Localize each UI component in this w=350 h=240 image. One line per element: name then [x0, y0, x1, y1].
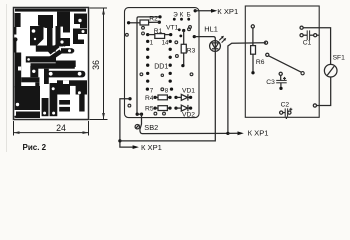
svg-text:R4: R4: [145, 95, 154, 102]
copper small rects: [59, 100, 70, 105]
svg-text:R6: R6: [256, 59, 265, 66]
svg-text:SF1: SF1: [333, 54, 346, 61]
PCB board frame: [14, 8, 89, 120]
extension line right: [88, 121, 90, 136]
diode VD2: [174, 106, 177, 109]
copper trace left thin: [14, 27, 16, 35]
board outline: [125, 8, 200, 118]
resistor R6: [251, 25, 254, 28]
svg-text:R5: R5: [145, 106, 154, 113]
copper tall bar right: [79, 95, 84, 112]
pad top-right: [194, 9, 197, 12]
svg-text:DD1: DD1: [154, 62, 168, 70]
svg-text:1: 1: [150, 39, 154, 46]
copper bar J: [21, 77, 39, 82]
svg-text:SB2: SB2: [144, 123, 158, 132]
copper bar H: [36, 46, 56, 52]
label 36: [91, 60, 101, 70]
svg-text:R3: R3: [187, 48, 196, 55]
svg-text:К ХР1: К ХР1: [141, 143, 162, 152]
ground wire net (bottom-left XP1): [128, 97, 131, 100]
wire R2 net: [129, 17, 160, 114]
LED HL1 wire anode: [193, 35, 196, 38]
SF1 return wire: [317, 77, 331, 106]
svg-text:Э: Э: [173, 11, 178, 18]
copper bar A: [31, 63, 75, 68]
LED rays: [219, 37, 223, 41]
copper diagonal trace 1: [48, 44, 60, 55]
wire to XP1 top: [195, 10, 212, 12]
copper shape right: [73, 29, 87, 35]
copper big block right: [57, 80, 87, 94]
panel outline: [245, 6, 319, 117]
dim arrows 24: [14, 131, 20, 134]
svg-text:К ХР1: К ХР1: [248, 128, 269, 137]
svg-text:14: 14: [162, 39, 169, 46]
switch contact: [266, 53, 269, 56]
svg-text:C3: C3: [266, 79, 275, 86]
arrow XP1 bottom-left: [133, 145, 139, 149]
wire to HL1 cathode: [120, 51, 215, 140]
extra dots near VT1: [178, 28, 181, 31]
SB2 net riser to right panel: [228, 43, 266, 134]
copper block mid-left: [30, 26, 44, 46]
transistor pads: [173, 18, 176, 21]
svg-text:VT1: VT1: [166, 24, 179, 31]
svg-text:Б: Б: [187, 11, 191, 18]
svg-text:R2: R2: [149, 15, 158, 22]
svg-text:7: 7: [150, 87, 154, 94]
svg-text:36: 36: [91, 60, 101, 70]
resistor R3: [182, 29, 185, 32]
copper L-shape: [56, 38, 71, 46]
copper trace vertical: [47, 26, 53, 46]
copper diagonal trace 2: [47, 50, 63, 63]
resistor R2: [140, 20, 149, 25]
copper stub w/ hole: [30, 66, 38, 77]
IC DD1 pads: [146, 40, 173, 91]
button SB2 symbol: [135, 125, 139, 129]
svg-text:Рис. 2: Рис. 2: [23, 143, 47, 152]
svg-text:К: К: [180, 11, 184, 18]
wire into panel pad: [264, 41, 267, 44]
extension line left: [13, 121, 15, 136]
svg-text:VD2: VD2: [182, 111, 195, 118]
node dots R2 net: [127, 21, 130, 24]
copper bar1: [42, 98, 49, 116]
copper block top-left: [15, 13, 21, 27]
arrow XP1 bottom-right: [228, 132, 239, 134]
pin8 circle: [161, 88, 164, 91]
button SB2 wire: [140, 114, 228, 133]
copper column Q: [50, 83, 58, 116]
copper block top-center: [57, 12, 70, 27]
bottom junction dots: [136, 113, 139, 116]
copper block top-right: [74, 14, 87, 25]
svg-text:C2: C2: [281, 101, 290, 108]
dimension line 24: [14, 132, 89, 134]
svg-text:C1: C1: [303, 40, 312, 47]
copper slot bar K: [44, 69, 49, 84]
wire C1 to SF1: [300, 26, 303, 29]
copper block top-middle: [38, 15, 53, 28]
svg-text:8: 8: [165, 87, 169, 94]
svg-text:HL1: HL1: [204, 24, 218, 33]
copper blob bottom-left: [15, 86, 40, 110]
copper trace top band: [15, 9, 86, 12]
svg-text:К ХР1: К ХР1: [217, 7, 238, 16]
copper wide bar: [56, 61, 76, 68]
copper left column: [15, 53, 22, 88]
svg-text:VD1: VD1: [182, 88, 195, 95]
white holes in copper: [16, 19, 85, 118]
open pads middle board: [126, 26, 193, 115]
svg-text:24: 24: [56, 123, 66, 133]
copper bar I: [26, 56, 56, 62]
